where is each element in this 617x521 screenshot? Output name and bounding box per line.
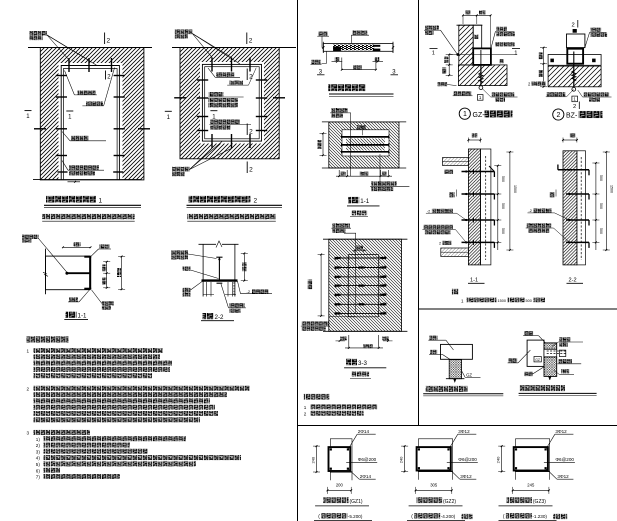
subtitle M1 underline [350, 215, 368, 217]
title GZ1 circle [459, 108, 470, 119]
label RB2 right top [559, 337, 570, 341]
title GZ2 line2 underline [407, 519, 465, 521]
leader BZ bottom-left [567, 90, 574, 97]
leader M3 bottom-left [329, 316, 356, 318]
title GZ2 section [417, 497, 443, 503]
dim M1 bottom labels [341, 172, 346, 176]
node BZ band square right [592, 59, 596, 63]
column GZ1 inner vertical [480, 50, 482, 65]
dim S11 right outer label [117, 268, 121, 277]
hanger S22 short verticals [206, 282, 208, 297]
title D1 underline [44, 204, 141, 206]
anchor tick D1 right 4 [114, 155, 125, 157]
column BZ inner vertical [573, 52, 575, 64]
angle steel S11 top cap [84, 256, 91, 258]
notes line 8 [34, 398, 211, 403]
leader R11 left rebar [457, 213, 467, 220]
rebar GZ3 corner dots [515, 448, 517, 450]
anchor tick D2 left 2 [197, 97, 208, 99]
note R11 zhu [452, 289, 459, 295]
title GZ3 line2 underline [499, 519, 557, 521]
leader M3 top [344, 233, 356, 313]
node RB2 bottom tick [549, 376, 552, 380]
beam BZ band [548, 55, 601, 66]
leader RB2 quanliang [539, 336, 546, 343]
label lintel right [352, 31, 367, 35]
beam RB1 rect [441, 344, 473, 359]
anchor tick D1 right 3 [114, 128, 125, 130]
leader RB2 right low [554, 370, 560, 375]
dim lintel main label [353, 65, 362, 69]
subtitle D2 [187, 214, 275, 219]
svg-text:3Φ12: 3Φ12 [458, 429, 470, 434]
leader R22 anchor [554, 228, 570, 242]
dim GZ1 left chain [448, 55, 450, 76]
node D1 section mark 1 left [25, 110, 32, 112]
label RB1 bxh [429, 336, 437, 340]
hanger S22 dashed vertical right [233, 282, 235, 295]
anchor tick D2 right 1 [256, 79, 267, 81]
bolt S11 head dot [65, 272, 68, 275]
wall M3 top line [323, 238, 407, 240]
leader R22 left rebar [555, 213, 570, 220]
column GZ1 bold square [473, 48, 491, 65]
notes line 10 [34, 411, 219, 416]
anchor tick D2 right 3 [256, 116, 267, 118]
rebar GZ2 corner dots [418, 448, 420, 450]
leader GZ1 bottom-left [447, 85, 456, 86]
slab R11 top-left [443, 158, 469, 166]
anchor tick D2 left 1 [197, 79, 208, 81]
title M1 [348, 197, 359, 203]
leader S11 houjia [39, 239, 67, 273]
notes line 11 [34, 417, 201, 422]
rebar RB2 dashed ties [547, 350, 567, 352]
column BZ upper white rect [567, 34, 585, 48]
svg-text:2-2: 2-2 [215, 314, 225, 321]
node D2 section mark 2 top [246, 33, 248, 45]
anchor tick D2 bottom 1 [211, 134, 213, 148]
column GZ2 bold square [417, 447, 451, 470]
leader GZ1 bottom-right [482, 89, 491, 98]
anchor tick D2 outer left [174, 97, 186, 99]
node D1 bottom tick [68, 181, 81, 183]
label R11 anchor 2-line [423, 225, 453, 229]
label RB2 qiangti left [509, 358, 517, 362]
dim BZ left chain [543, 48, 545, 87]
leader S22 top-left [188, 254, 217, 259]
svg-text:BZ-: BZ- [566, 113, 578, 120]
svg-text:2: 2 [249, 167, 253, 174]
node D2 section mark 2 bottom-in [246, 124, 248, 136]
title RB2 [520, 385, 566, 391]
svg-text:500: 500 [501, 176, 505, 182]
svg-text:500: 500 [526, 299, 532, 303]
notes line 7 [34, 392, 228, 397]
leader S11 L50x5 top [91, 249, 99, 256]
stamp text GZ2 right [462, 514, 473, 519]
leader BZ top-right [585, 32, 590, 47]
stamp text GZ3 right [553, 514, 567, 519]
label GZ1 bottom anchor [454, 91, 472, 95]
svg-text:2Φ14: 2Φ14 [360, 474, 372, 479]
title GZ3 section [507, 497, 533, 503]
layer R11 added [481, 149, 491, 265]
layer R22 added [577, 151, 586, 265]
hanger S22 bottom ticks [204, 294, 215, 296]
wall GZ1 vertical leg hatch [459, 25, 473, 65]
frame D2 inner [205, 67, 260, 139]
svg-text:305: 305 [430, 483, 438, 488]
column GZ1 bold square [329, 447, 351, 471]
label BZ bottom-left [547, 92, 566, 96]
node RB2 inner box [534, 357, 541, 362]
svg-text:Φ6@200: Φ6@200 [458, 457, 477, 462]
wire divider horizontal upper-right [419, 308, 617, 310]
label M3 top [332, 223, 350, 227]
anchor tick D1 left 4 [56, 155, 67, 157]
anchor tick D1 left 2 [56, 96, 67, 98]
rebar R22 vertical dashed [580, 157, 582, 260]
lintel M1 white pocket [342, 130, 389, 156]
svg-text:2: 2 [439, 241, 441, 245]
svg-text:1: 1 [304, 405, 307, 410]
leader RB1 bxh [446, 340, 454, 350]
svg-text:5): 5) [36, 462, 41, 467]
leader D2 L50 [249, 68, 257, 85]
svg-text:2: 2 [107, 38, 111, 45]
leader lintel right [350, 35, 352, 43]
dim S11 top [63, 246, 91, 248]
wall hatch D2 [180, 48, 279, 159]
bolt S22 nut below [217, 282, 223, 284]
label S11 L50x5 bottom [102, 301, 114, 305]
dim M3 bottom drops [348, 335, 350, 348]
dim S22 right [243, 253, 245, 280]
lintel M1 inner hatch [346, 139, 385, 151]
stirrup GZ1 drop lines [329, 471, 331, 480]
section line GZ1 1-1 [449, 54, 517, 56]
svg-text:6): 6) [36, 468, 41, 473]
anchor tick D1 top 3 [111, 58, 113, 72]
rebar M1 bars [342, 136, 389, 138]
anchor tick D1 outer left [34, 128, 46, 130]
dim lintel drop lines [341, 58, 343, 70]
rebar R22 top hook up [557, 165, 559, 170]
dim lintel right seg label [375, 57, 380, 61]
dim GZ2 left [404, 446, 406, 471]
leader lintel wall [322, 51, 327, 63]
title M3 underline [344, 367, 386, 369]
wall hatch D1 [40, 48, 144, 180]
title S11 [66, 312, 77, 318]
label GZ1 inner small [474, 35, 479, 40]
column RB2 hatched strip bottom [544, 357, 557, 377]
svg-text:-2: -2 [529, 209, 532, 213]
rebar R11 vertical dashed [485, 156, 487, 260]
wall S22 left face [202, 244, 204, 296]
bracket R11 label 50 [449, 192, 454, 197]
leader lintel left [322, 36, 323, 47]
subtitle M3 underline [350, 377, 371, 379]
svg-text:7): 7) [36, 475, 41, 480]
svg-text:1: 1 [99, 197, 103, 204]
anchor tick D1 right 1 [114, 75, 125, 77]
lintel end tick right [392, 42, 394, 53]
svg-text:1-1: 1-1 [78, 313, 88, 320]
label S11 houjia [22, 235, 39, 239]
anchor tick D2 outer right [273, 97, 285, 99]
stirrup GZ3 thin rect [516, 439, 550, 472]
label RB1 quanliang [430, 350, 437, 354]
leader D1 fan [47, 35, 69, 60]
anchor tick D2 bottom 2 [231, 134, 233, 148]
svg-text:4): 4) [36, 456, 41, 461]
leader GZ1 top bars [348, 434, 357, 449]
svg-text:1500: 1500 [498, 299, 506, 303]
label D1 L50x5 steel [78, 91, 96, 95]
label GZ1 top-left [425, 26, 439, 30]
wall GZ1 horizontal leg hatch [458, 65, 507, 86]
node D1 section mark 2 top [104, 33, 106, 45]
anchor tick D2 top 1 [211, 58, 213, 72]
wire divider vertical left [297, 0, 299, 521]
label M3 bottom-left [302, 321, 329, 325]
node D1 bottom line [33, 179, 142, 181]
title M3 [346, 359, 357, 365]
node D1 top wall line [28, 47, 152, 49]
label D2 M12@500 lower [210, 119, 240, 124]
wall BZ hatch [548, 66, 601, 87]
frame D1 inner [64, 69, 118, 181]
anchor tick D1 jamb bottom right [113, 171, 123, 173]
ground RB1 tick [454, 379, 457, 382]
svg-text:240: 240 [399, 456, 404, 463]
label GZ1 right mid [495, 42, 515, 46]
lintel dark bar right upper [373, 45, 380, 47]
dim M1 bottom drop lines [338, 170, 340, 176]
label D1 jiagu-gangjin [71, 136, 89, 141]
dim S11 right inner chain [106, 262, 108, 288]
wall M1 hatch [329, 122, 399, 168]
title RB1 underline [423, 393, 503, 395]
svg-text:2: 2 [249, 129, 253, 136]
svg-text:(GZ2): (GZ2) [443, 499, 456, 505]
column RB1 crosshatch [449, 360, 461, 379]
svg-text:1): 1) [36, 437, 41, 442]
subtitle D2 underline [187, 220, 275, 222]
notes line 9 [34, 405, 216, 410]
label S22 top-left [171, 250, 188, 255]
rebar M3 bar hooks [335, 258, 337, 260]
anchor GZ1 spring [479, 73, 483, 84]
opening D1 white [59, 63, 123, 180]
wall S22 right face [234, 244, 236, 296]
svg-text:2: 2 [557, 112, 561, 119]
title S22 underline [201, 320, 234, 322]
leader D2 fan [192, 34, 212, 58]
leader RB1 GZ [461, 370, 465, 377]
notes line 4 [34, 367, 171, 372]
leader D1 jiagu [62, 132, 70, 141]
dim M1 left bracket [322, 133, 324, 155]
dim lintel left seg label [335, 57, 340, 61]
label M1 top-left [331, 108, 348, 112]
svg-text:2: 2 [304, 412, 307, 417]
svg-text:GZ-: GZ- [473, 112, 486, 119]
svg-text:240: 240 [496, 456, 501, 463]
label BZ bottom-right [584, 92, 610, 96]
stirrup GZ3 drop lines [515, 471, 517, 480]
column RB2 white band [544, 349, 557, 357]
svg-text:3Φ12: 3Φ12 [557, 474, 569, 479]
leader S22 L50x5 [191, 281, 203, 290]
svg-text:200: 200 [336, 483, 344, 488]
title R11 underline [468, 282, 485, 284]
leader R11 anchor [456, 230, 467, 243]
title D1 [46, 196, 96, 203]
title GZ1 line2 underline [314, 519, 372, 521]
rebar R11 top hook extra [489, 166, 494, 172]
dim GZ1 top drops [462, 15, 464, 24]
column M3 left line [347, 255, 349, 317]
node D2 section mark 2 bottom [246, 162, 248, 174]
dim S11 top label [74, 242, 81, 246]
dim M3 left bracket [320, 255, 322, 316]
title D2 [189, 196, 251, 203]
svg-text:3Φ12: 3Φ12 [460, 474, 472, 479]
wire divider horizontal bottom [298, 425, 617, 427]
svg-text:2): 2) [36, 443, 41, 448]
dim S11 right inner labels [102, 265, 106, 272]
label M1 below right [371, 181, 397, 185]
leader D2 bottom fan [190, 148, 213, 169]
svg-text:500: 500 [501, 203, 505, 209]
svg-text:GZ: GZ [535, 358, 540, 362]
dim GZ3 left [501, 446, 503, 471]
angle steel S11 vertical bold [89, 256, 91, 289]
dim GZ2 bottom line [416, 489, 452, 491]
title RB1 [426, 386, 468, 392]
node D2 top wall line [172, 47, 296, 49]
dim R11 top label [472, 133, 478, 137]
subtitle M3 [352, 372, 370, 377]
title S22 [203, 313, 214, 319]
lintel outline [323, 44, 393, 52]
dim GZ1 left labels [444, 57, 448, 64]
leader GZ2 bottom bars [449, 469, 460, 480]
svg-text:2-2: 2-2 [569, 278, 577, 284]
anchor BZ circle [572, 87, 576, 91]
label S22 L50x5 left [183, 288, 191, 292]
stirrup GZ2 drop lines [417, 471, 419, 480]
leader BZ bottom-right [578, 90, 583, 97]
dim M3 bottom small right label [382, 337, 389, 341]
column BZ bold square [567, 49, 583, 64]
svg-text:-4.200): -4.200) [441, 514, 456, 519]
label D2 houjia-gangjin [175, 30, 193, 35]
lintel dark block left [333, 47, 341, 51]
column M3 bottom line [348, 316, 378, 318]
leader GZ1 bottom bars [348, 469, 359, 479]
leader GZ2 top bars [449, 434, 458, 449]
svg-text:-1.230): -1.230) [532, 514, 547, 519]
svg-text:2Φ14: 2Φ14 [358, 429, 370, 434]
title R22 underline [567, 282, 584, 284]
dim M1 bottom line [336, 175, 392, 177]
anchor tick D2 right 2 [256, 97, 267, 99]
wall M3 bottom line [323, 330, 407, 332]
svg-text:-5.200): -5.200) [348, 514, 363, 519]
notes line 5 [34, 373, 153, 378]
dim lintel main line [342, 69, 376, 71]
anchor tick D2 top 2 [231, 58, 233, 72]
label RB2 right low [561, 369, 569, 373]
node BZ top filled square [573, 29, 577, 33]
wall M1 bottom line [322, 167, 406, 169]
node RB2 right box [559, 350, 565, 356]
title GZ1 section [323, 497, 349, 503]
column GZ3 bold square [514, 447, 548, 470]
label D2 M12 bolts 3-line [209, 92, 224, 97]
anchor tick D1 outer right [138, 128, 150, 130]
label RB2 qiangti bottom [524, 372, 533, 376]
svg-text:1: 1 [432, 50, 435, 56]
dim M3 bottom small right [383, 340, 393, 342]
title lintel [328, 84, 366, 91]
label RB2 right mid [559, 359, 573, 363]
label BZ top-right [591, 28, 602, 32]
leader D2 L50x5 [208, 68, 215, 77]
subtitle D1 [42, 214, 135, 219]
leader M1 below [379, 154, 381, 186]
subtitle M1 [352, 211, 368, 216]
stirrup GZ1 thin rect [330, 439, 352, 472]
node D1 section mark 2 inner [105, 71, 107, 80]
anchor tick D2 bottom 3 [249, 134, 251, 148]
svg-text:2: 2 [27, 386, 30, 391]
dim GZ1 left [316, 446, 318, 472]
rebar R11 hooks [462, 171, 495, 173]
dim R22 chain inner [595, 163, 597, 250]
svg-text:1500: 1500 [513, 185, 517, 193]
label lintel wall left [312, 60, 321, 64]
anchor GZ1 vertical [480, 65, 482, 86]
rebar R22 hooks [558, 169, 589, 171]
dim GZ1 top labels [465, 10, 471, 14]
label GZ1 right wall small blob [500, 59, 504, 63]
wall GZ1 vertical leg white strip [473, 25, 482, 48]
svg-text:240: 240 [311, 456, 316, 463]
leader M1 top-left [348, 113, 351, 176]
label D2 maoshuan bottom-left [172, 167, 190, 172]
title GZ2 section underline [409, 505, 463, 507]
svg-text:500: 500 [599, 228, 603, 234]
title lintel underline [329, 93, 394, 95]
svg-text:1500: 1500 [609, 185, 613, 193]
svg-text:(GZ1): (GZ1) [350, 499, 363, 505]
leader S22 M12 [191, 270, 219, 279]
dim GZ1 bottom line [328, 489, 352, 491]
svg-text:1: 1 [27, 349, 30, 354]
anchor tick D1 left 3 [56, 128, 67, 130]
dim R11 top line [468, 139, 480, 141]
leader S22 bottom anchor [221, 284, 229, 308]
leader GZ3 stirrup [544, 462, 575, 464]
leader S11 L50x5 bottom [92, 290, 102, 304]
wall S22 break slash [216, 241, 222, 248]
svg-text:1-1: 1-1 [470, 278, 478, 284]
